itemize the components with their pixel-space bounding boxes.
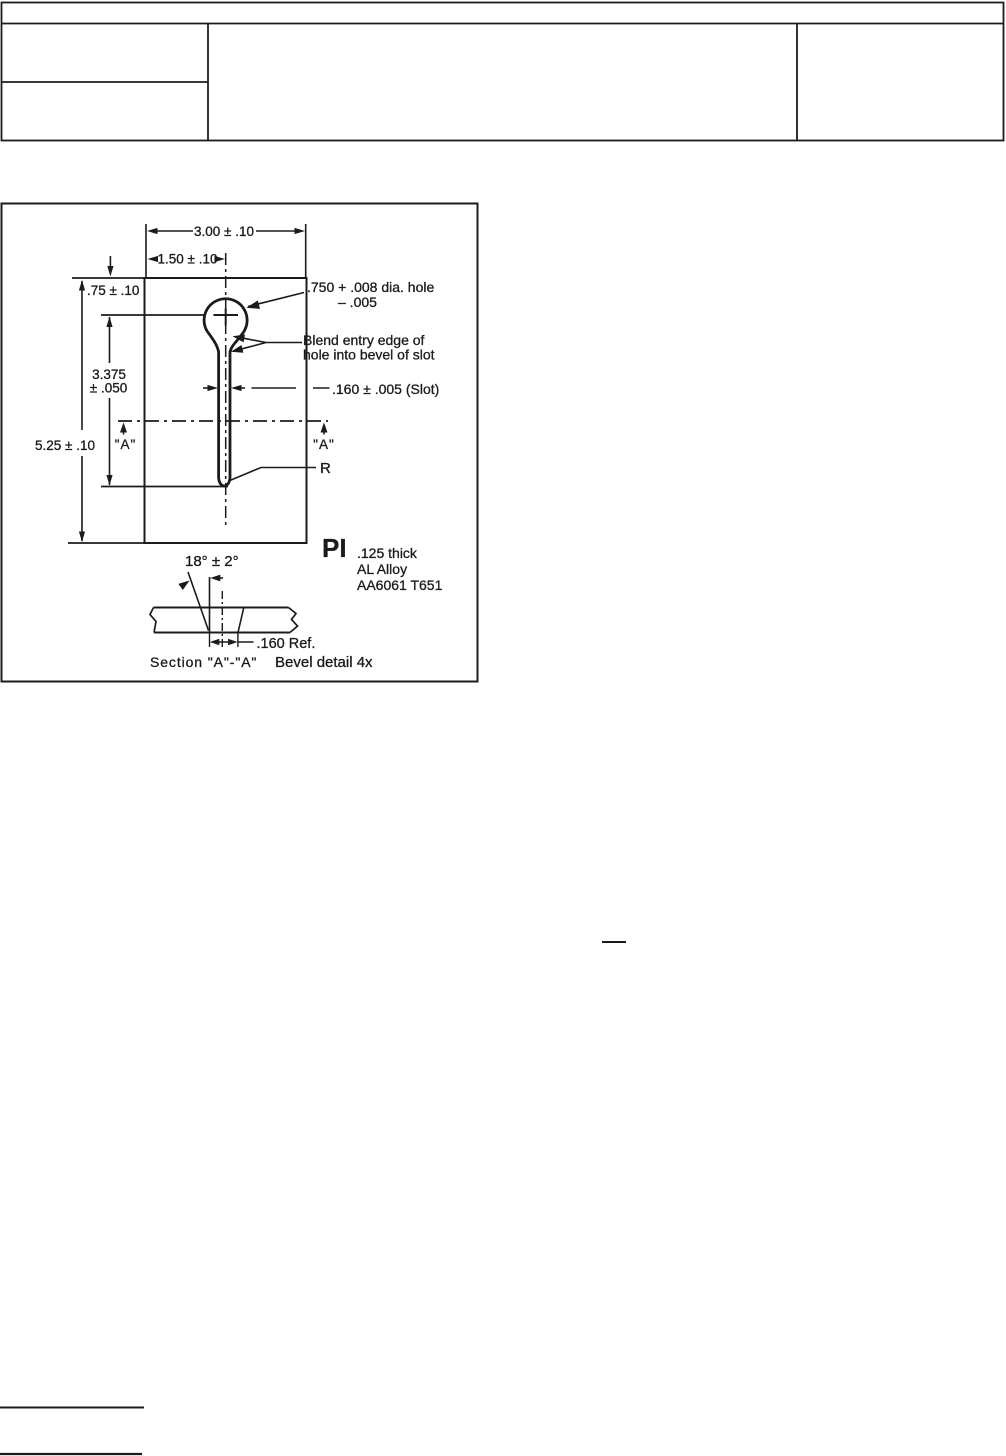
svg-text:R: R xyxy=(320,460,331,477)
svg-text:"A": "A" xyxy=(313,437,335,452)
svg-text:Section "A"-"A": Section "A"-"A" xyxy=(150,654,257,670)
svg-text:.160 Ref.: .160 Ref. xyxy=(257,636,316,652)
svg-text:18° ± 2°: 18° ± 2° xyxy=(185,553,239,570)
svg-text:.125 thick: .125 thick xyxy=(357,545,418,561)
svg-text:Bevel detail 4x: Bevel detail 4x xyxy=(275,654,373,671)
svg-text:PI: PI xyxy=(322,533,347,563)
svg-text:– .005: – .005 xyxy=(338,294,377,310)
svg-text:± .050: ± .050 xyxy=(90,381,127,396)
svg-text:AL Alloy: AL Alloy xyxy=(357,561,407,577)
svg-text:hole into bevel of slot: hole into bevel of slot xyxy=(303,347,435,363)
svg-text:1.50 ± .10: 1.50 ± .10 xyxy=(158,252,218,267)
svg-text:.75 ± .10: .75 ± .10 xyxy=(87,283,139,298)
svg-text:"A": "A" xyxy=(115,437,137,452)
svg-text:.160 ± .005 (Slot): .160 ± .005 (Slot) xyxy=(332,381,439,397)
svg-text:3.00 ± .10: 3.00 ± .10 xyxy=(194,224,254,239)
svg-text:AA6061 T651: AA6061 T651 xyxy=(357,577,443,593)
svg-text:.750 + .008 dia. hole: .750 + .008 dia. hole xyxy=(307,279,434,295)
svg-text:5.25 ± .10: 5.25 ± .10 xyxy=(35,438,95,453)
